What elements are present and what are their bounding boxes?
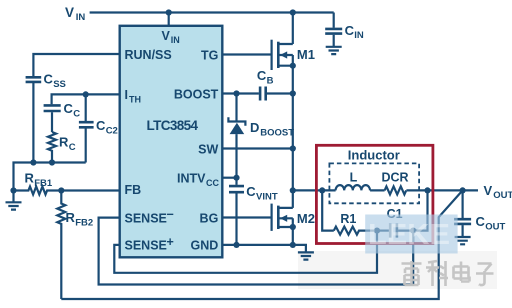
inductor L coil [336, 171, 370, 191]
wire INTVCC [222, 177, 236, 179]
svg-text:DCR: DCR [381, 171, 408, 185]
svg-text:FB1: FB1 [34, 178, 53, 189]
capacitor C1 [377, 190, 428, 237]
svg-text:+: + [167, 235, 174, 249]
node rail junction RC [49, 159, 55, 165]
svg-text:LTC3854: LTC3854 [147, 118, 199, 133]
node SW junction [290, 145, 296, 151]
transistor M2 [272, 190, 315, 245]
resistor RC [48, 132, 76, 163]
capacitor CC2 [79, 94, 118, 162]
node junction top rail right [290, 9, 296, 15]
wire M1 source to SW node [292, 94, 294, 149]
wire SENSE- route [99, 218, 414, 285]
watermark CJK char 2 (ke) [426, 261, 448, 286]
svg-text:SS: SS [53, 79, 66, 90]
watermark CJK char 3 (dian) [454, 262, 470, 282]
transistor M1 [272, 13, 315, 94]
capacitor CC [44, 101, 81, 132]
watermark CJK char 4 (zi) [476, 264, 494, 286]
node C1 right junction [410, 228, 416, 234]
svg-text:V: V [65, 5, 74, 20]
node VIN label [65, 5, 85, 23]
svg-text:R: R [25, 171, 35, 186]
svg-text:C: C [44, 72, 54, 87]
node FB divider junction [58, 187, 64, 193]
svg-text:OUT: OUT [493, 190, 512, 201]
svg-text:V: V [162, 29, 171, 43]
svg-text:M1: M1 [297, 47, 315, 62]
svg-text:TG: TG [201, 48, 218, 62]
resistor RFB2 [57, 191, 93, 300]
svg-text:SENSE: SENSE [125, 239, 167, 253]
wire VIN pin branch [168, 13, 170, 26]
svg-text:C: C [246, 184, 256, 199]
capacitor CSS [26, 72, 66, 163]
node GND junction CVINT [233, 242, 239, 248]
capacitor CB [257, 68, 293, 101]
label VOUT [484, 183, 512, 201]
svg-text:VINT: VINT [256, 192, 278, 203]
svg-text:C: C [257, 68, 267, 83]
svg-text:RUN/SS: RUN/SS [125, 48, 172, 62]
node VOUT junction [460, 187, 466, 193]
node inductor left junction [319, 187, 325, 193]
svg-text:C2: C2 [106, 126, 118, 137]
svg-text:SENSE: SENSE [125, 211, 167, 225]
svg-text:I: I [125, 88, 128, 102]
wire RUN/SS to CSS [33, 54, 119, 76]
watermark CJK char 1 (lei) [402, 261, 422, 285]
svg-text:LEKE: LEKE [368, 219, 450, 251]
svg-text:BOOST: BOOST [260, 128, 294, 139]
wire BOOST [222, 92, 259, 94]
svg-text:−: − [167, 208, 174, 222]
svg-text:V: V [484, 183, 493, 198]
svg-text:C: C [69, 142, 76, 153]
ground (RFB1) [6, 191, 22, 210]
inductor model red box [316, 145, 433, 243]
wire ITH [52, 94, 120, 104]
svg-text:Inductor: Inductor [348, 148, 400, 163]
svg-text:INTV: INTV [177, 172, 206, 186]
node INTVCC junction [233, 175, 239, 181]
diode DBOOST [228, 94, 294, 178]
watermark blue band [365, 215, 457, 254]
pin label INTVCC [177, 172, 219, 188]
node inductor line left junction [290, 187, 296, 193]
node CB right junction [290, 90, 296, 96]
wire SW to inductor line [292, 149, 294, 191]
node M2 source junction [290, 224, 296, 230]
node ITH junction [83, 91, 89, 97]
pin label SENSE+ [125, 235, 174, 253]
node junction top rail left [166, 9, 172, 15]
node FB left junction [10, 187, 16, 193]
pin label SENSE- [125, 208, 174, 226]
svg-text:M2: M2 [297, 211, 315, 226]
node M1 source junction [290, 63, 296, 69]
svg-text:C: C [64, 101, 74, 116]
wire compensation rail [14, 163, 86, 191]
wire SENSE+ route [114, 231, 377, 273]
pin label ITH [125, 88, 142, 104]
svg-text:IN: IN [171, 35, 180, 45]
svg-text:IN: IN [76, 12, 86, 23]
svg-text:BG: BG [200, 211, 219, 225]
pin label VIN (IC) [162, 29, 180, 45]
capacitor CVINT [229, 178, 278, 245]
svg-text:R1: R1 [340, 212, 356, 226]
resistor DCR [381, 171, 408, 195]
svg-text:C: C [476, 214, 486, 229]
ground (COUT) [455, 237, 471, 244]
svg-text:GND: GND [191, 239, 219, 253]
wire GND pin [222, 245, 306, 252]
node inductor right junction [424, 187, 430, 193]
node rail junction CSS [30, 159, 36, 165]
svg-text:FB2: FB2 [75, 218, 93, 229]
svg-text:C: C [345, 23, 355, 38]
capacitor CIN [325, 13, 364, 47]
svg-text:R: R [66, 210, 76, 225]
svg-text:B: B [267, 76, 274, 87]
svg-text:BOOST: BOOST [174, 87, 219, 101]
svg-text:SW: SW [198, 142, 218, 156]
wire main output line [293, 189, 478, 191]
svg-text:R: R [59, 135, 69, 150]
resistor R1 [334, 212, 377, 235]
ground (CIN) [326, 47, 342, 54]
IC U1 LTC3854 body [120, 26, 223, 257]
resistor RFB1 [14, 171, 120, 195]
svg-text:C: C [73, 108, 80, 119]
svg-text:L: L [350, 171, 358, 185]
wire FB divider to VOUT (bottom line) [61, 190, 462, 299]
svg-text:CC: CC [206, 178, 219, 188]
wire TG to M1 gate [222, 53, 271, 55]
node GND junction M2 [290, 242, 296, 248]
node BOOST junction [233, 90, 239, 96]
dashed box L/DCR [329, 163, 419, 203]
svg-text:FB: FB [125, 183, 142, 197]
ground (power) [298, 252, 314, 259]
wire SW [222, 147, 292, 149]
wire R1 branch [322, 190, 334, 230]
node R1-C1 junction [374, 228, 380, 234]
capacitor COUT [454, 190, 505, 237]
wire VIN top rail [90, 11, 334, 13]
svg-text:TH: TH [129, 95, 141, 105]
svg-text:OUT: OUT [485, 222, 505, 233]
svg-text:IN: IN [354, 30, 364, 41]
wire BG to M2 gate [222, 216, 271, 218]
watermark gray backdrop [298, 251, 497, 289]
svg-text:D: D [250, 120, 259, 135]
svg-text:C: C [96, 118, 106, 133]
